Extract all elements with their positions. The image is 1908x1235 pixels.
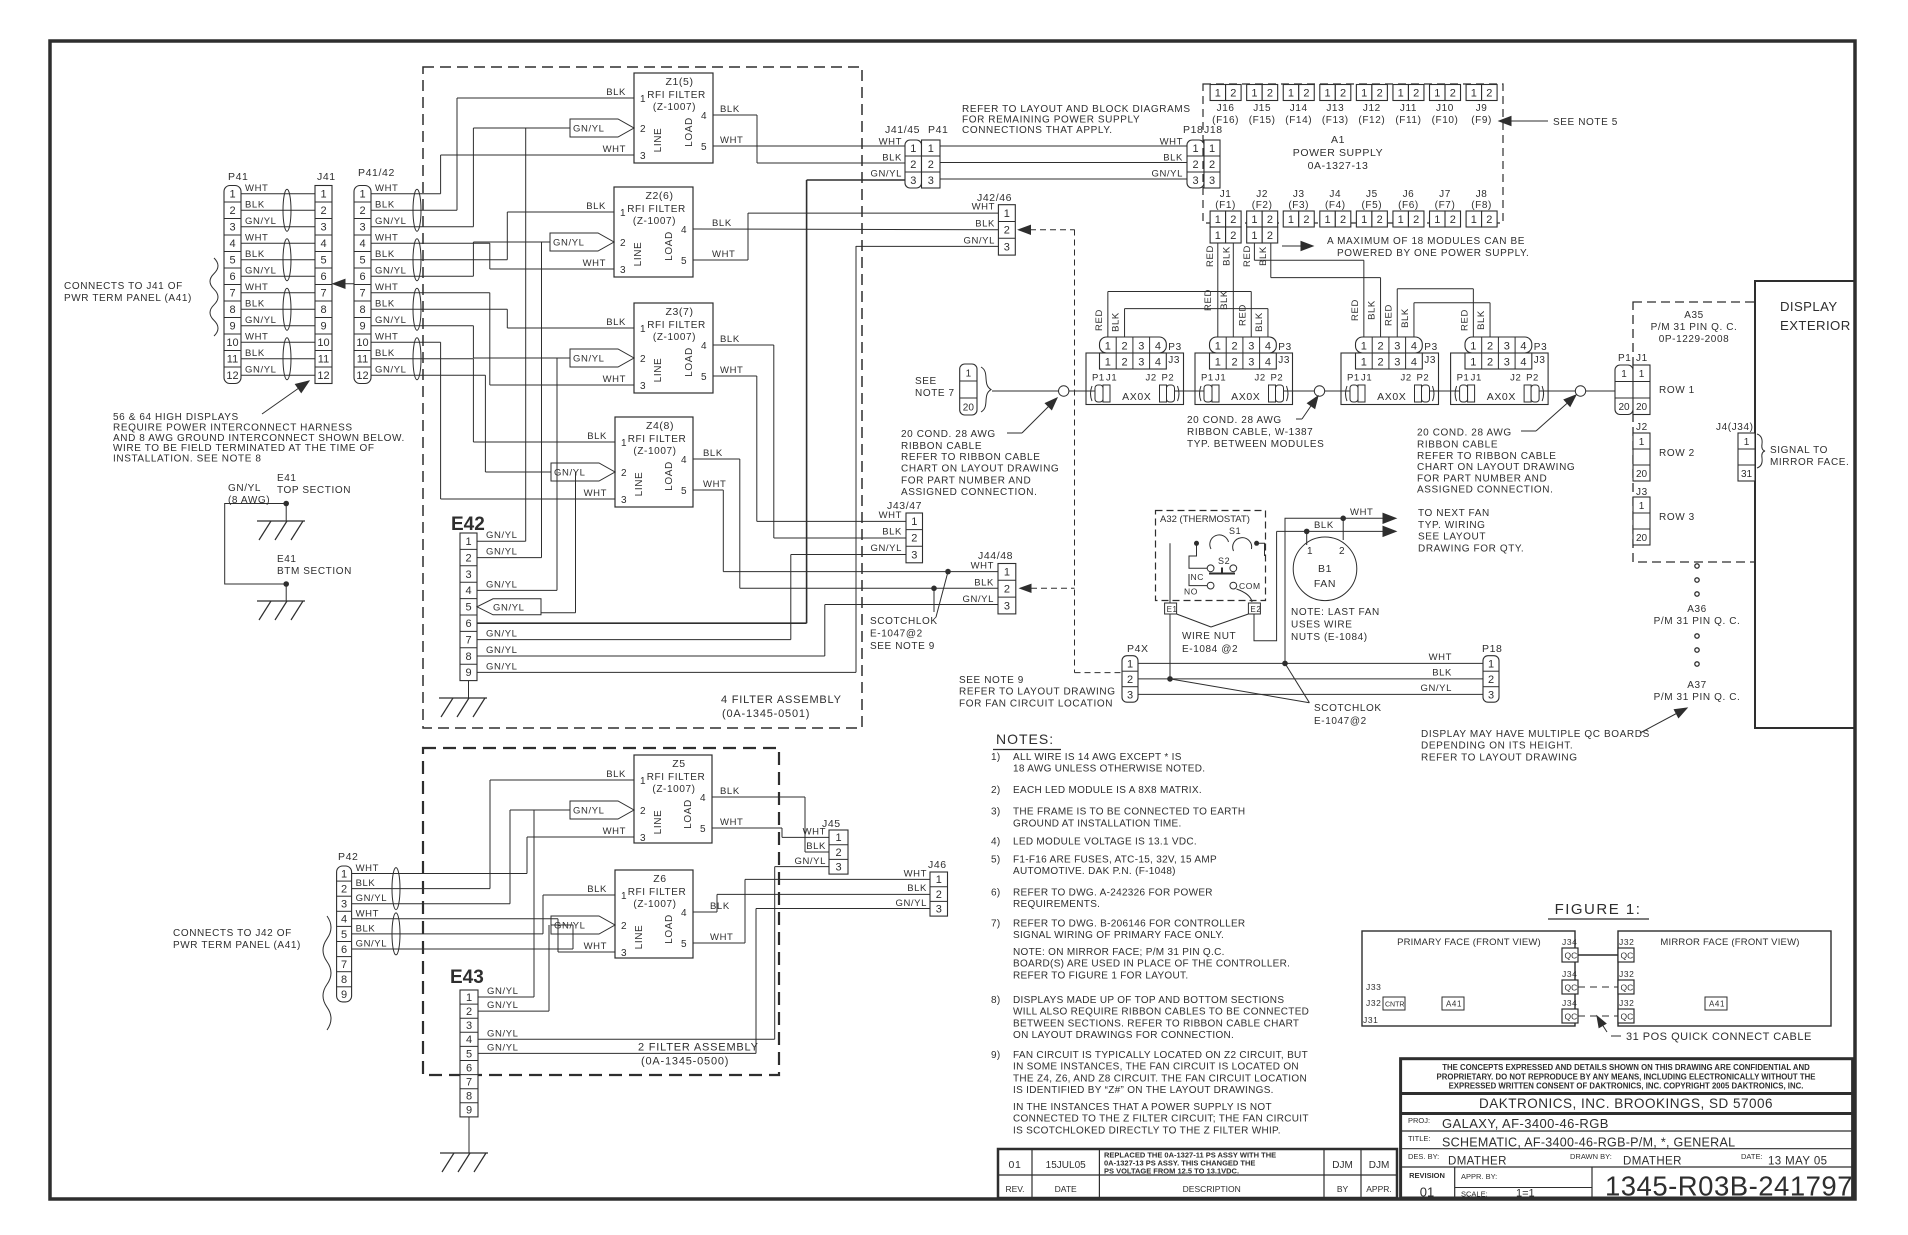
svg-text:IN SOME INSTANCES, THE FAN CIR: IN SOME INSTANCES, THE FAN CIRCUIT IS LO… xyxy=(1013,1062,1299,1073)
svg-text:3: 3 xyxy=(1504,341,1510,353)
svg-text:BLK: BLK xyxy=(606,87,626,98)
svg-text:BLK: BLK xyxy=(1163,153,1183,164)
wire Z2 pin5 WHT to J42/46 pin1 xyxy=(693,259,748,261)
label 31 pos quick connect cable xyxy=(1598,1018,1607,1032)
svg-text:RFI FILTER: RFI FILTER xyxy=(628,887,687,898)
svg-text:2: 2 xyxy=(1413,87,1419,99)
svg-text:J4(J34): J4(J34) xyxy=(1716,422,1754,433)
svg-text:4: 4 xyxy=(1411,357,1417,369)
svg-text:BLK: BLK xyxy=(245,200,265,211)
svg-text:REFER TO DWG. A-242326 FOR POW: REFER TO DWG. A-242326 FOR POWER xyxy=(1013,888,1213,899)
svg-text:MIRROR FACE.: MIRROR FACE. xyxy=(1770,457,1849,468)
svg-text:(F16): (F16) xyxy=(1212,115,1239,126)
svg-text:BLK: BLK xyxy=(1400,308,1411,328)
svg-text:DISPLAY: DISPLAY xyxy=(1780,299,1838,314)
svg-text:4: 4 xyxy=(1411,341,1417,353)
svg-text:2: 2 xyxy=(1230,87,1236,99)
wire E43-2 GN/YL to Z6 pin2 xyxy=(478,1010,549,1012)
svg-text:REFER TO LAYOUT DRAWING: REFER TO LAYOUT DRAWING xyxy=(959,687,1116,698)
node S1 left xyxy=(1194,541,1199,546)
svg-text:5: 5 xyxy=(700,824,706,835)
svg-text:J2: J2 xyxy=(1255,373,1266,384)
svg-text:GN/YL: GN/YL xyxy=(573,124,605,135)
svg-text:0P-1229-2008: 0P-1229-2008 xyxy=(1659,334,1730,345)
svg-text:GN/YL: GN/YL xyxy=(895,898,927,909)
svg-text:ASSIGNED CONNECTION.: ASSIGNED CONNECTION. xyxy=(1417,485,1553,496)
svg-text:2: 2 xyxy=(1121,341,1127,353)
svg-text:1: 1 xyxy=(1215,357,1221,369)
svg-text:56 & 64 HIGH DISPLAYS: 56 & 64 HIGH DISPLAYS xyxy=(113,412,239,423)
revision cell xyxy=(1454,1167,1456,1198)
svg-text:J32: J32 xyxy=(1619,998,1635,1008)
wire E2 to fan BLK line xyxy=(1254,531,1277,640)
svg-text:3: 3 xyxy=(1394,357,1400,369)
svg-text:J3: J3 xyxy=(1168,355,1180,366)
svg-text:1: 1 xyxy=(1251,230,1257,242)
svg-text:1: 1 xyxy=(621,891,627,902)
svg-text:2: 2 xyxy=(1488,674,1494,686)
svg-text:PROJ:: PROJ: xyxy=(1408,1116,1430,1125)
svg-text:WHT: WHT xyxy=(375,282,398,293)
svg-text:3: 3 xyxy=(936,904,942,916)
svg-text:J1: J1 xyxy=(1220,189,1232,200)
scotchlok leaders fan circuit xyxy=(1285,663,1309,702)
svg-text:LINE: LINE xyxy=(653,128,664,153)
svg-text:FOR REMAINING POWER SUPPLY: FOR REMAINING POWER SUPPLY xyxy=(962,115,1140,126)
svg-text:EXTERIOR: EXTERIOR xyxy=(1780,318,1851,333)
svg-text:P3: P3 xyxy=(1168,342,1181,353)
svg-text:BLK: BLK xyxy=(1258,246,1269,266)
svg-text:J46: J46 xyxy=(928,859,947,871)
svg-text:Z1(5): Z1(5) xyxy=(665,76,693,88)
svg-text:(F4): (F4) xyxy=(1325,200,1346,211)
svg-text:2: 2 xyxy=(359,205,365,217)
power supply connector J14 (F14) xyxy=(1283,85,1299,101)
module 4 connector P3 xyxy=(1465,337,1532,353)
node E41 top xyxy=(283,501,289,507)
module 1 connector P3 xyxy=(1100,337,1167,353)
svg-text:Z5: Z5 xyxy=(672,758,685,770)
svg-text:2: 2 xyxy=(910,159,916,171)
svg-text:RED: RED xyxy=(1459,309,1470,331)
svg-text:WIRE NUT: WIRE NUT xyxy=(1182,631,1236,642)
svg-text:WHT: WHT xyxy=(583,258,606,269)
svg-text:5: 5 xyxy=(341,929,347,941)
svg-text:1: 1 xyxy=(1361,357,1367,369)
svg-text:DJM: DJM xyxy=(1332,1160,1353,1171)
svg-text:12: 12 xyxy=(317,370,329,382)
mirror A41 box xyxy=(1705,997,1727,1010)
svg-text:1: 1 xyxy=(1105,357,1111,369)
svg-text:2: 2 xyxy=(621,468,627,479)
svg-text:J41: J41 xyxy=(317,171,336,183)
svg-text:GN/YL: GN/YL xyxy=(486,645,518,656)
svg-text:1: 1 xyxy=(1398,214,1404,226)
wire E1 down to fan BLK junction xyxy=(1169,614,1171,679)
svg-text:BLK: BLK xyxy=(356,923,376,934)
svg-text:6: 6 xyxy=(320,271,326,283)
brace left of P41 pins 5-8 xyxy=(210,258,218,336)
svg-text:3: 3 xyxy=(1138,357,1144,369)
ground E43 xyxy=(468,1117,470,1153)
svg-text:20 COND. 28 AWG: 20 COND. 28 AWG xyxy=(1187,415,1282,426)
wire Z1 pin4 BLK to J41/45 pin2 xyxy=(713,114,757,116)
svg-text:8: 8 xyxy=(466,1091,472,1103)
svg-text:GN/YL: GN/YL xyxy=(245,315,277,326)
svg-text:2: 2 xyxy=(1450,87,1456,99)
plug on power supply J2 xyxy=(1247,227,1263,243)
wire module3 pin3 to module4 pin1 xyxy=(1396,289,1398,337)
wire E42-4 GN/YL to Z3 pin2 xyxy=(477,589,557,591)
svg-text:3: 3 xyxy=(1248,357,1254,369)
svg-text:WHT: WHT xyxy=(720,135,743,146)
svg-text:P18: P18 xyxy=(1482,643,1502,655)
svg-text:2: 2 xyxy=(320,205,326,217)
svg-text:COM: COM xyxy=(1239,581,1261,591)
svg-text:A35: A35 xyxy=(1684,310,1704,321)
svg-text:7: 7 xyxy=(359,288,365,300)
wire COM to E2 xyxy=(1237,589,1253,602)
svg-text:A36: A36 xyxy=(1687,604,1707,615)
wire P41/42-7 WHT to Z3 pin3 xyxy=(371,292,490,294)
svg-text:GN/YL: GN/YL xyxy=(487,1000,519,1011)
svg-text:WHT: WHT xyxy=(1350,507,1373,518)
svg-text:(F13): (F13) xyxy=(1322,115,1349,126)
mirror face box xyxy=(1618,931,1831,1026)
svg-text:2: 2 xyxy=(1230,214,1236,226)
svg-text:1: 1 xyxy=(911,516,917,528)
wire P4X-3 GN/YL to P18-3 xyxy=(1138,693,1483,695)
svg-text:CONNECTS TO J41 OF: CONNECTS TO J41 OF xyxy=(64,281,183,292)
title block xyxy=(1401,1059,1853,1198)
svg-text:31 POS QUICK CONNECT CABLE: 31 POS QUICK CONNECT CABLE xyxy=(1626,1031,1812,1043)
thermostat A32 dashed box xyxy=(1156,511,1266,601)
svg-text:BLK: BLK xyxy=(1222,246,1233,266)
svg-text:QC: QC xyxy=(1565,1012,1578,1022)
svg-text:4: 4 xyxy=(466,1034,472,1046)
svg-text:DAKTRONICS, INC. BROOKINGS,: DAKTRONICS, INC. BROOKINGS, SD 57006 xyxy=(1479,1096,1773,1111)
svg-text:WHT: WHT xyxy=(972,202,995,213)
svg-text:4: 4 xyxy=(681,908,687,919)
svg-text:1: 1 xyxy=(1471,87,1477,99)
svg-text:QC: QC xyxy=(1565,983,1578,993)
svg-text:REV.: REV. xyxy=(1005,1184,1024,1194)
svg-text:BY: BY xyxy=(1337,1184,1349,1194)
svg-text:3: 3 xyxy=(621,948,627,959)
svg-text:6: 6 xyxy=(466,1062,472,1074)
svg-text:NOTES:: NOTES: xyxy=(996,731,1054,747)
svg-text:J5: J5 xyxy=(1366,189,1378,200)
svg-text:J10: J10 xyxy=(1436,103,1454,114)
svg-text:1: 1 xyxy=(341,868,347,880)
svg-text:A41: A41 xyxy=(1709,1000,1725,1009)
svg-text:J13: J13 xyxy=(1326,103,1344,114)
svg-text:DATE: DATE xyxy=(1055,1184,1077,1194)
svg-text:BLK: BLK xyxy=(606,769,626,780)
wire P41/42-1 WHT to Z1 pin3 xyxy=(371,193,441,195)
svg-text:2: 2 xyxy=(928,159,934,171)
svg-text:4: 4 xyxy=(1155,341,1161,353)
svg-text:E-1084 @2: E-1084 @2 xyxy=(1182,644,1238,655)
svg-text:1: 1 xyxy=(640,324,646,335)
2 filter assembly dashed box (0A-1345-0500) xyxy=(423,748,779,1075)
svg-text:BLK: BLK xyxy=(712,218,732,229)
svg-text:1: 1 xyxy=(1307,546,1313,557)
svg-text:1: 1 xyxy=(1434,87,1440,99)
svg-text:5: 5 xyxy=(681,939,687,950)
svg-text:3: 3 xyxy=(1488,689,1494,701)
svg-text:GN/YL: GN/YL xyxy=(245,266,277,277)
svg-text:GN/YL: GN/YL xyxy=(356,939,388,950)
svg-text:8: 8 xyxy=(359,304,365,316)
svg-text:8: 8 xyxy=(465,651,471,663)
wire P42-3 GN/YL to Z5 pin2 xyxy=(352,903,510,905)
svg-text:2: 2 xyxy=(1377,341,1383,353)
wire E41 interconnect xyxy=(225,504,287,585)
power supply connector J12 (F12) xyxy=(1356,85,1372,101)
svg-text:01: 01 xyxy=(1009,1159,1022,1171)
arrow to J41 connector xyxy=(262,383,306,414)
svg-text:3: 3 xyxy=(465,569,471,581)
svg-text:ON LAYOUT DRAWINGS FOR CONNECT: ON LAYOUT DRAWINGS FOR CONNECTION. xyxy=(1013,1030,1234,1041)
wire P41/42-6 GN/YL to Z2 pin2 xyxy=(371,275,473,277)
svg-text:18 AWG UNLESS OTHERWISE NOTED.: 18 AWG UNLESS OTHERWISE NOTED. xyxy=(1013,764,1205,775)
svg-text:2: 2 xyxy=(1340,214,1346,226)
svg-text:SCOTCHLOK: SCOTCHLOK xyxy=(870,616,938,627)
svg-text:WHT: WHT xyxy=(703,479,726,490)
svg-text:BLK: BLK xyxy=(1111,312,1122,332)
svg-text:1: 1 xyxy=(1470,357,1476,369)
svg-text:P2: P2 xyxy=(1271,373,1284,384)
svg-text:2: 2 xyxy=(1303,214,1309,226)
svg-text:6: 6 xyxy=(465,618,471,630)
svg-text:GN/YL: GN/YL xyxy=(487,1042,519,1053)
svg-text:(F9): (F9) xyxy=(1471,115,1492,126)
primary A41 box xyxy=(1442,997,1464,1010)
svg-text:7: 7 xyxy=(229,288,235,300)
svg-text:4: 4 xyxy=(320,238,326,250)
svg-text:1: 1 xyxy=(1215,87,1221,99)
svg-text:1: 1 xyxy=(1324,87,1330,99)
QC board A35 dashed box xyxy=(1633,302,1755,562)
svg-text:BTM SECTION: BTM SECTION xyxy=(277,566,352,577)
svg-text:RED: RED xyxy=(1203,289,1214,311)
wire nut label xyxy=(1177,614,1211,627)
svg-text:1: 1 xyxy=(936,874,942,886)
svg-text:LED MODULE VOLTAGE IS 13.1 VDC: LED MODULE VOLTAGE IS 13.1 VDC. xyxy=(1013,837,1197,848)
svg-text:QC: QC xyxy=(1565,951,1578,961)
svg-text:3: 3 xyxy=(640,151,646,162)
svg-text:1: 1 xyxy=(1251,214,1257,226)
junction dot on BLK wire to J44/48 xyxy=(931,586,937,592)
svg-text:1: 1 xyxy=(1288,214,1294,226)
svg-text:APPR.: APPR. xyxy=(1366,1184,1392,1194)
svg-text:2: 2 xyxy=(341,883,347,895)
svg-text:A1: A1 xyxy=(1331,134,1345,146)
svg-text:1: 1 xyxy=(1488,658,1494,670)
svg-text:BLK: BLK xyxy=(587,431,607,442)
svg-text:WHT: WHT xyxy=(584,941,607,952)
wire P41/42-10 WHT to Z4 pin3 xyxy=(371,341,441,343)
svg-text:J6: J6 xyxy=(1403,189,1415,200)
svg-text:RED: RED xyxy=(1205,245,1216,267)
svg-text:(F1): (F1) xyxy=(1215,200,1236,211)
svg-text:J9: J9 xyxy=(1476,103,1488,114)
wire E42-5 GN/YL to Z4 pin2 xyxy=(477,599,541,615)
wire P41/42-8 BLK to Z3 pin1 xyxy=(371,308,507,310)
svg-text:2: 2 xyxy=(1487,357,1493,369)
wires P41 to J41 xyxy=(241,193,315,195)
svg-text:A32 (THERMOSTAT): A32 (THERMOSTAT) xyxy=(1160,514,1250,525)
svg-text:LOAD: LOAD xyxy=(664,914,675,944)
svg-text:WHT: WHT xyxy=(584,488,607,499)
svg-text:BLK: BLK xyxy=(356,878,376,889)
svg-text:GN/YL: GN/YL xyxy=(486,579,518,590)
svg-text:FIGURE 1:: FIGURE 1: xyxy=(1555,901,1642,918)
svg-text:J34: J34 xyxy=(1562,998,1578,1008)
svg-text:1: 1 xyxy=(1639,369,1645,380)
svg-text:J3: J3 xyxy=(1534,355,1546,366)
wire PS J2-2 BLK to module3 pin2 xyxy=(1270,243,1272,278)
svg-text:WHT: WHT xyxy=(710,932,733,943)
svg-text:SCHEMATIC, AF-3400-46-RGB-P/M,: SCHEMATIC, AF-3400-46-RGB-P/M, *, GENERA… xyxy=(1442,1136,1735,1150)
svg-text:(F3): (F3) xyxy=(1288,200,1309,211)
svg-text:2: 2 xyxy=(1450,214,1456,226)
svg-text:GN/YL: GN/YL xyxy=(375,216,407,227)
svg-text:J8: J8 xyxy=(1476,189,1488,200)
svg-text:2: 2 xyxy=(835,847,841,859)
svg-text:E43: E43 xyxy=(450,967,484,988)
svg-text:7): 7) xyxy=(991,919,1001,930)
svg-text:TOP SECTION: TOP SECTION xyxy=(277,485,351,496)
svg-text:6: 6 xyxy=(229,271,235,283)
svg-text:P/M 31 PIN Q. C.: P/M 31 PIN Q. C. xyxy=(1654,616,1741,627)
svg-text:(F8): (F8) xyxy=(1471,200,1492,211)
svg-text:FOR FAN CIRCUIT LOCATION: FOR FAN CIRCUIT LOCATION xyxy=(959,698,1113,709)
svg-text:(F5): (F5) xyxy=(1362,200,1383,211)
wire PS J1-2 BLK to module2 pin2 xyxy=(1232,243,1234,337)
svg-text:J2: J2 xyxy=(1510,373,1521,384)
svg-text:2: 2 xyxy=(1231,357,1237,369)
see note 5 arrow xyxy=(1500,120,1548,122)
svg-text:15JUL05: 15JUL05 xyxy=(1046,1160,1086,1171)
svg-text:3: 3 xyxy=(341,899,347,911)
svg-text:WHT: WHT xyxy=(720,365,743,376)
svg-text:1: 1 xyxy=(621,438,627,449)
svg-text:P2: P2 xyxy=(1417,373,1430,384)
dashed control arrow into J44/48 pin 2 xyxy=(1021,587,1075,589)
dashed control arrow into J42/46 pin 2 xyxy=(1020,229,1075,231)
svg-text:5: 5 xyxy=(701,142,707,153)
svg-text:4: 4 xyxy=(681,455,687,466)
svg-text:6): 6) xyxy=(991,888,1001,899)
svg-text:2: 2 xyxy=(640,806,646,817)
node S1 right xyxy=(1254,541,1259,546)
note a maximum of 18 modules xyxy=(1282,245,1310,247)
svg-text:FOR PART NUMBER AND: FOR PART NUMBER AND xyxy=(901,475,1031,486)
svg-text:GN/YL: GN/YL xyxy=(870,543,902,554)
svg-text:RIBBON CABLE, W-1387: RIBBON CABLE, W-1387 xyxy=(1187,427,1313,438)
quick connect cable dashed 3 xyxy=(1578,1015,1618,1017)
svg-text:5: 5 xyxy=(465,602,471,614)
svg-text:QC: QC xyxy=(1621,951,1634,961)
svg-text:P1: P1 xyxy=(1201,373,1214,384)
svg-text:REFER TO DWG. B-206146 FOR CON: REFER TO DWG. B-206146 FOR CONTROLLER xyxy=(1013,919,1245,930)
svg-text:1: 1 xyxy=(640,94,646,105)
wire ribbon module1 to module2 xyxy=(1175,390,1205,392)
svg-text:J1: J1 xyxy=(1471,373,1482,384)
svg-text:J34: J34 xyxy=(1562,937,1578,947)
svg-text:7: 7 xyxy=(320,288,326,300)
svg-text:Z4(8): Z4(8) xyxy=(646,420,674,432)
svg-text:10: 10 xyxy=(356,337,368,349)
svg-text:3: 3 xyxy=(640,381,646,392)
svg-text:8: 8 xyxy=(341,974,347,986)
svg-text:1: 1 xyxy=(1744,437,1750,448)
svg-text:BLK: BLK xyxy=(720,104,740,115)
svg-text:AUTOMOTIVE. DAK P.N. (F-1048): AUTOMOTIVE. DAK P.N. (F-1048) xyxy=(1013,866,1176,877)
svg-text:J2: J2 xyxy=(1256,189,1268,200)
svg-text:WILL ALSO REQUIRE RIBBON CABLE: WILL ALSO REQUIRE RIBBON CABLES TO BE CO… xyxy=(1013,1007,1309,1018)
wire P4X-1 WHT to P18-1 xyxy=(1138,662,1483,664)
wire Z4 pin5 WHT to J44/48 pin1 xyxy=(693,489,723,491)
svg-text:1: 1 xyxy=(1361,87,1367,99)
svg-text:1: 1 xyxy=(928,143,934,155)
svg-text:2: 2 xyxy=(1231,341,1237,353)
svg-text:LINE: LINE xyxy=(634,925,645,950)
svg-text:BLK: BLK xyxy=(882,527,902,538)
svg-text:NOTE: ON MIRROR FACE; P/M 31 P: NOTE: ON MIRROR FACE; P/M 31 PIN Q.C. xyxy=(1013,947,1225,958)
svg-text:ROW 3: ROW 3 xyxy=(1659,512,1695,523)
wire PS J1-1 RED to module2 pin1 xyxy=(1217,243,1219,337)
primary QC connector J34 #1 xyxy=(1562,948,1578,962)
module 1 connector J3 xyxy=(1100,353,1167,369)
wire Z5 pin5 WHT to J45 pin1 xyxy=(712,827,782,829)
svg-text:ALL WIRE IS 14 AWG EXCEPT * IS: ALL WIRE IS 14 AWG EXCEPT * IS xyxy=(1013,752,1182,763)
svg-text:4: 4 xyxy=(465,585,471,597)
svg-text:2): 2) xyxy=(991,785,1001,796)
svg-text:2: 2 xyxy=(1340,87,1346,99)
svg-text:WHT: WHT xyxy=(712,249,735,260)
svg-text:DJM: DJM xyxy=(1369,1160,1390,1171)
svg-text:1: 1 xyxy=(1215,214,1221,226)
svg-text:2: 2 xyxy=(621,921,627,932)
svg-text:Z3(7): Z3(7) xyxy=(665,306,693,318)
svg-text:4: 4 xyxy=(701,341,707,352)
svg-text:BLK: BLK xyxy=(710,901,730,912)
svg-text:1: 1 xyxy=(1361,341,1367,353)
svg-text:BLK: BLK xyxy=(703,448,723,459)
svg-text:3: 3 xyxy=(1248,341,1254,353)
svg-text:2: 2 xyxy=(1267,214,1273,226)
svg-text:10: 10 xyxy=(226,337,238,349)
svg-text:DISPLAY MAY HAVE MULTIPLE QC B: DISPLAY MAY HAVE MULTIPLE QC BOARDS xyxy=(1421,729,1650,740)
svg-text:A37: A37 xyxy=(1687,680,1707,691)
svg-text:2: 2 xyxy=(1339,546,1345,557)
svg-text:RED: RED xyxy=(1094,309,1105,331)
svg-text:1: 1 xyxy=(1470,341,1476,353)
svg-text:(F6): (F6) xyxy=(1398,200,1419,211)
svg-text:GN/YL: GN/YL xyxy=(486,547,518,558)
svg-text:5: 5 xyxy=(701,372,707,383)
wire P42-6 GN/YL to Z6 pin2 xyxy=(352,948,573,950)
svg-text:2: 2 xyxy=(1377,357,1383,369)
svg-text:THE Z4, Z6, AND Z8 CIRCUIT. TH: THE Z4, Z6, AND Z8 CIRCUIT. THE FAN CIRC… xyxy=(1013,1073,1307,1084)
svg-text:3: 3 xyxy=(1209,175,1215,187)
svg-text:3: 3 xyxy=(928,175,934,187)
svg-text:BLK: BLK xyxy=(1254,312,1265,332)
svg-text:RED: RED xyxy=(1237,304,1248,326)
